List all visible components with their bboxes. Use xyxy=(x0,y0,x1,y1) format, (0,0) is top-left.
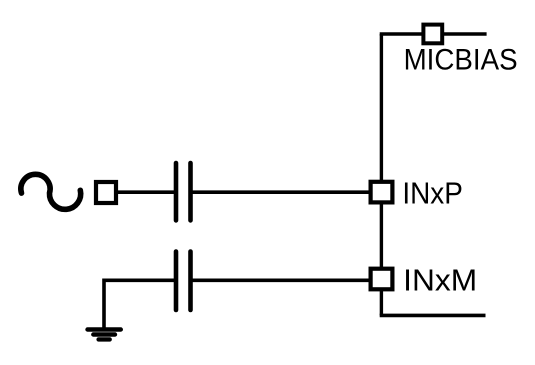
ground xyxy=(88,330,121,340)
wire: top horizontal to MICBIAS terminal xyxy=(380,32,487,36)
label INxP xyxy=(402,175,463,210)
AC source V1 (sine symbol) xyxy=(21,174,81,209)
node INxP pad xyxy=(371,182,393,203)
label INxM xyxy=(403,263,477,298)
source terminal pad xyxy=(96,182,116,203)
wire: C1 right plate to INxP pad xyxy=(193,190,371,194)
wire: ground riser and horizontal to C2 left plate xyxy=(104,280,174,328)
svg-text:MICBIAS: MICBIAS xyxy=(404,44,518,77)
wire: bottom horizontal from INxM bus xyxy=(380,314,486,318)
svg-text:INxP: INxP xyxy=(402,175,463,210)
wire: vertical bus from MICBIAS wire through INxP and INxM xyxy=(380,34,383,315)
wire: source pad to C1 left plate xyxy=(116,190,174,194)
capacitor C1 (AC coupling, top) xyxy=(176,163,191,220)
MICBIAS terminal pad xyxy=(423,25,442,44)
node INxM pad xyxy=(371,269,393,290)
label MICBIAS xyxy=(404,44,518,77)
capacitor C2 (AC coupling, bottom) xyxy=(176,252,191,311)
wire: C2 right plate to INxM pad xyxy=(193,278,371,282)
svg-text:INxM: INxM xyxy=(403,263,477,298)
